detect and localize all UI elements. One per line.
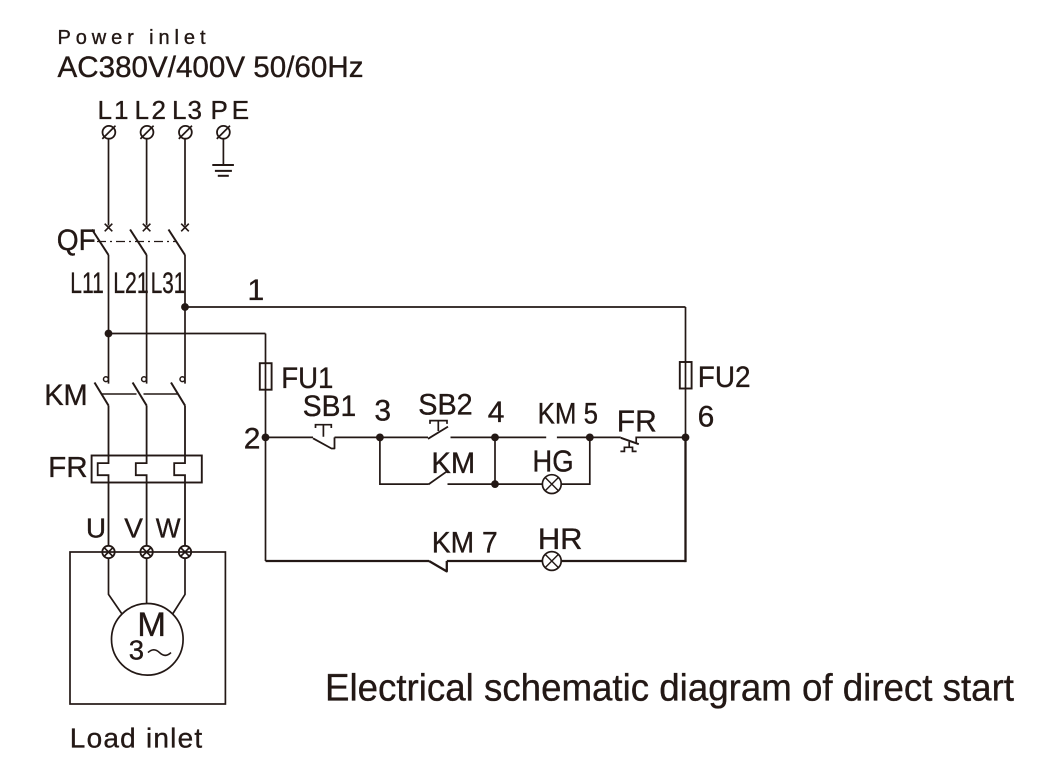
svg-text:L31: L31 (151, 267, 186, 300)
svg-text:L2: L2 (135, 95, 167, 125)
svg-text:U: U (86, 512, 106, 543)
svg-text:QF: QF (57, 224, 96, 257)
svg-text:FR: FR (617, 403, 657, 438)
svg-text:Electrical schematic diagram o: Electrical schematic diagram of direct s… (325, 668, 1014, 710)
svg-text:FR: FR (48, 452, 87, 484)
svg-text:KM 7: KM 7 (432, 527, 498, 560)
svg-text:Power inlet: Power inlet (58, 27, 206, 49)
svg-text:L11: L11 (70, 267, 104, 300)
svg-text:FU2: FU2 (698, 361, 751, 394)
svg-text:HR: HR (538, 523, 583, 556)
svg-text:3: 3 (374, 395, 391, 428)
svg-text:Load inlet: Load inlet (70, 722, 203, 753)
svg-text:L3: L3 (172, 95, 202, 125)
svg-text:W: W (156, 512, 181, 543)
svg-text:2: 2 (244, 423, 261, 456)
svg-text:6: 6 (698, 400, 715, 433)
svg-text:KM: KM (431, 447, 475, 480)
svg-text:KM 5: KM 5 (538, 397, 598, 430)
svg-text:1: 1 (248, 274, 265, 307)
svg-text:SB2: SB2 (418, 389, 472, 422)
svg-text:KM: KM (44, 379, 87, 412)
svg-text:HG: HG (532, 444, 573, 479)
svg-text:PE: PE (211, 95, 250, 125)
svg-text:L1: L1 (98, 95, 129, 125)
svg-text:SB1: SB1 (303, 390, 356, 423)
svg-text:AC380V/400V 50/60Hz: AC380V/400V 50/60Hz (58, 51, 364, 84)
svg-text:L21: L21 (113, 267, 149, 300)
svg-text:3: 3 (129, 635, 144, 666)
svg-text:V: V (124, 512, 143, 543)
svg-text:4: 4 (488, 396, 505, 429)
